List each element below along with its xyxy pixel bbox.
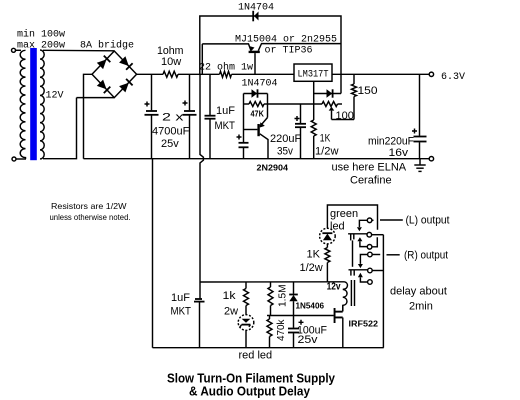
relay R bar and ticks xyxy=(349,270,368,276)
label IRF522 xyxy=(349,318,379,328)
capacitor 220uF 35v xyxy=(295,104,307,159)
svg-text:220uF: 220uF xyxy=(270,133,301,145)
wire gate junction line xyxy=(267,315,334,317)
resistor 1.5M xyxy=(268,282,273,316)
output terminal 6.3V xyxy=(429,72,465,83)
wire secondary bottom AC2 xyxy=(43,98,77,159)
bridge rectifier diamond xyxy=(92,51,137,98)
label 1N4704 top xyxy=(238,3,274,14)
relay coil xyxy=(343,282,348,311)
svg-text:1N4704: 1N4704 xyxy=(238,3,274,14)
svg-text:LM317T: LM317T xyxy=(298,70,329,81)
wire raw supply drop with hop xyxy=(200,74,203,282)
label 12v xyxy=(327,281,341,292)
svg-text:1.5M: 1.5M xyxy=(278,285,289,308)
capacitor 1uF MKT top xyxy=(205,74,216,158)
svg-text:2 x: 2 x xyxy=(162,112,184,124)
svg-text:10w: 10w xyxy=(161,56,181,68)
svg-text:use here ELNA: use here ELNA xyxy=(332,162,407,174)
label red led xyxy=(239,350,273,362)
svg-text:Resistors are 1/2W: Resistors are 1/2W xyxy=(51,201,127,211)
L output stub xyxy=(380,219,403,221)
bridge diode bottom-left xyxy=(97,80,111,94)
label green led xyxy=(330,208,358,233)
svg-text:1K: 1K xyxy=(320,133,331,145)
svg-text:1k: 1k xyxy=(223,290,237,302)
transformer T1 primary winding xyxy=(20,50,25,159)
resistor 1k 2w xyxy=(244,282,249,315)
wire bypass diode line verticals xyxy=(200,16,341,74)
resistor 1K 1/2w adj xyxy=(311,120,338,158)
label 1uF MKT top xyxy=(215,105,236,132)
svg-text:min 100w: min 100w xyxy=(17,29,65,41)
bridge diode top-left xyxy=(97,56,111,70)
relay contact R NO circle xyxy=(368,252,381,257)
wire 22ohm to LM317 input xyxy=(232,73,295,75)
transformer T1 core xyxy=(30,48,37,160)
label R output xyxy=(404,250,448,262)
red led xyxy=(238,315,254,348)
label 1K 1/2w green xyxy=(300,249,323,274)
svg-text:22 ohm 1w: 22 ohm 1w xyxy=(199,62,253,74)
wire 1ohm to 22ohm xyxy=(178,73,220,75)
relay contact R COM circle xyxy=(368,268,384,273)
svg-text:12v: 12v xyxy=(327,281,341,292)
svg-text:25v: 25v xyxy=(161,138,179,150)
label 12V xyxy=(46,91,64,102)
potentiometer 100 xyxy=(268,102,355,123)
svg-text:min220uF: min220uF xyxy=(368,136,414,148)
wire bridge right vertex to 1ohm xyxy=(137,73,163,75)
relay core lines xyxy=(351,280,354,306)
svg-text:1uF: 1uF xyxy=(171,292,190,304)
label 220uF 35v xyxy=(270,133,301,158)
transistor Q1 MJ15004 xyxy=(202,44,341,75)
transformer T1 primary terminal bottom xyxy=(12,157,26,161)
svg-text:16v: 16v xyxy=(389,147,409,159)
label min 100w max 200w xyxy=(17,29,65,52)
svg-text:1K: 1K xyxy=(307,249,321,261)
relay mech link 1 xyxy=(352,240,354,266)
wire ADJ vertical xyxy=(313,81,315,158)
svg-text:IRF522: IRF522 xyxy=(349,318,379,328)
diode 1N5406 xyxy=(289,282,298,316)
resistor 22 ohm 1w xyxy=(220,71,232,77)
svg-text:or TIP36: or TIP36 xyxy=(265,46,313,57)
capacitor 2x4700uF #2 xyxy=(183,74,197,158)
label 2 x 4700uF 25v xyxy=(152,112,190,151)
svg-text:2w: 2w xyxy=(224,306,238,318)
relay R up arrow xyxy=(358,273,368,282)
title xyxy=(167,372,335,399)
capacitor min220uF 16v xyxy=(412,74,427,158)
relay contact L NC circle xyxy=(367,237,377,249)
svg-text:delay about: delay about xyxy=(390,286,447,298)
label 1N5406 xyxy=(296,301,325,311)
svg-text:unless otherwise noted.: unless otherwise noted. xyxy=(50,212,131,222)
wire bridge bottom vertex to AC2 xyxy=(77,97,115,99)
wire MJ emitter drop xyxy=(201,44,203,74)
regulator U1 LM317T xyxy=(294,64,332,81)
label resistors note xyxy=(50,201,131,222)
transistor Q2 2N2904 xyxy=(244,118,269,159)
svg-text:MKT: MKT xyxy=(215,120,236,132)
wire bridge left vertex to ground rail xyxy=(84,74,93,158)
resistor 1K 1/2w green xyxy=(325,248,330,283)
capacitor base 2N2904 xyxy=(237,130,249,159)
svg-text:2min: 2min xyxy=(409,301,433,313)
svg-text:green: green xyxy=(330,208,358,220)
label use here ELNA Cerafine xyxy=(332,162,407,187)
svg-text:red led: red led xyxy=(239,350,273,362)
label 2N2904 xyxy=(257,163,289,173)
ground terminal circle xyxy=(429,157,433,161)
resistor 470k xyxy=(267,316,272,348)
svg-text:470k: 470k xyxy=(276,319,287,341)
svg-text:47K: 47K xyxy=(251,109,265,119)
svg-text:(R) output: (R) output xyxy=(404,250,448,262)
green led branch top wire xyxy=(327,205,377,230)
relay contact R NC circle xyxy=(368,280,373,285)
ground symbol xyxy=(414,159,425,172)
green led xyxy=(320,228,336,247)
capacitor 2x4700uF #1 xyxy=(145,74,159,158)
svg-text:8A bridge: 8A bridge xyxy=(80,40,134,52)
svg-text:& Audio Output Delay: & Audio Output Delay xyxy=(189,385,310,399)
label 1uF MKT bottom xyxy=(171,292,192,318)
ground rail xyxy=(84,158,430,160)
svg-text:25v: 25v xyxy=(298,334,319,346)
diode protection across regulator xyxy=(314,74,341,97)
svg-text:(L) output: (L) output xyxy=(406,215,450,227)
label 100uF 25v xyxy=(297,325,327,347)
relay L bar and ticks xyxy=(348,234,367,241)
label 22 ohm 1w xyxy=(199,62,253,74)
svg-text:MJ15004 or 2n2955: MJ15004 or 2n2955 xyxy=(235,35,337,46)
label MJ15004 or 2n2955 xyxy=(235,35,337,46)
diode 1N4704 limiter xyxy=(244,89,268,97)
wire LM317 out rail xyxy=(332,73,429,75)
relay contact L NO circle xyxy=(367,218,373,223)
transistor Q3 IRF522 xyxy=(334,305,343,347)
svg-text:35v: 35v xyxy=(277,146,293,158)
label 470k vertical xyxy=(276,319,287,341)
svg-text:12V: 12V xyxy=(46,91,64,102)
resistor 47K xyxy=(244,102,268,119)
svg-text:Cerafine: Cerafine xyxy=(350,175,392,187)
svg-text:MKT: MKT xyxy=(171,306,192,318)
svg-text:1/2w: 1/2w xyxy=(315,146,339,158)
transformer T1 secondary winding 12V xyxy=(40,50,44,159)
label 1N4704 limiter xyxy=(242,79,278,90)
transformer T1 primary terminal top xyxy=(12,48,22,52)
relay L up arrow xyxy=(357,237,367,246)
capacitor 1uF MKT bottom xyxy=(194,282,205,348)
relay contact L COM circle xyxy=(367,232,383,237)
bridge diode bottom-right xyxy=(119,79,133,93)
resistor 1ohm 10w xyxy=(163,71,178,77)
svg-text:1uF: 1uF xyxy=(216,105,235,117)
label 1k 2w xyxy=(223,290,239,318)
capacitor 100uF 25v xyxy=(288,316,304,348)
label 8A bridge xyxy=(80,40,134,52)
svg-text:4700uF: 4700uF xyxy=(152,126,190,138)
label min220uF 16v xyxy=(368,136,414,160)
svg-text:100: 100 xyxy=(336,110,354,122)
svg-text:Slow Turn-On Filament Supply: Slow Turn-On Filament Supply xyxy=(167,372,335,386)
label delay about 2min xyxy=(390,286,447,313)
svg-text:1N5406: 1N5406 xyxy=(296,301,325,311)
svg-text:2N2904: 2N2904 xyxy=(257,163,289,173)
svg-text:150: 150 xyxy=(358,85,378,97)
wire ground to bottom rail xyxy=(152,159,154,348)
wire secondary top to bridge xyxy=(43,49,114,52)
relay contact R arm wire and arrow xyxy=(358,255,368,269)
raw supply rail 12v xyxy=(200,281,345,283)
label or TIP36 xyxy=(265,46,313,57)
svg-text:led: led xyxy=(330,221,345,233)
bottom rail xyxy=(153,347,384,349)
svg-text:1N4704: 1N4704 xyxy=(242,79,278,90)
label L output xyxy=(406,215,450,227)
bridge diode top-right xyxy=(119,56,133,70)
svg-text:6.3V: 6.3V xyxy=(441,72,465,83)
label 1ohm 10w xyxy=(157,45,184,68)
current limiter loop left vertical xyxy=(243,94,245,130)
R output stub xyxy=(387,254,400,256)
diode 1N4704 top bypass xyxy=(253,11,258,21)
relay contact L arm wire and arrow xyxy=(357,220,367,231)
svg-text:1/2w: 1/2w xyxy=(300,262,323,274)
resistor 150 xyxy=(352,74,378,119)
current limiter loop right vertical xyxy=(267,94,269,118)
relay bus2 vertical xyxy=(382,235,384,348)
label 1.5M vertical xyxy=(278,285,289,308)
